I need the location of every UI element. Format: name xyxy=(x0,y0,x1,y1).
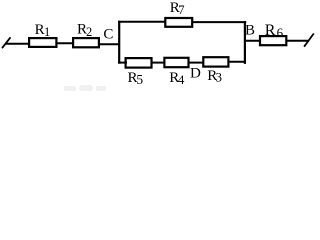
wire: top branch left segment xyxy=(118,21,166,23)
wire: R2 to node C junction xyxy=(98,43,120,45)
resistor R2 xyxy=(73,38,99,47)
wire: right vertical of parallel section xyxy=(244,21,246,64)
wire: bottom branch left segment xyxy=(118,62,127,64)
resistor R5 xyxy=(126,58,152,68)
svg-text:3: 3 xyxy=(216,70,223,85)
wire: R3 to node B junction xyxy=(228,61,247,63)
resistor R3 xyxy=(203,57,228,66)
resistor R6 xyxy=(260,36,286,45)
svg-text:R: R xyxy=(265,22,276,39)
svg-text:5: 5 xyxy=(136,72,143,87)
svg-text:6: 6 xyxy=(277,25,284,40)
resistor R7 xyxy=(165,18,192,27)
watermark xyxy=(64,85,106,91)
resistor R4 xyxy=(164,58,188,67)
wire: R6 to right terminal xyxy=(286,40,310,42)
resistor R1 xyxy=(29,38,56,47)
svg-text:B: B xyxy=(245,22,255,38)
left terminal slash xyxy=(2,37,11,48)
wire: node B to R6 xyxy=(244,40,261,42)
svg-text:C: C xyxy=(103,27,113,43)
svg-text:2: 2 xyxy=(86,25,92,39)
svg-text:7: 7 xyxy=(178,3,184,17)
svg-text:D: D xyxy=(190,66,201,82)
svg-text:4: 4 xyxy=(178,72,185,87)
wire: top branch right segment xyxy=(192,21,247,23)
wire: R4 to R3 (node D) xyxy=(188,62,204,64)
right terminal slash xyxy=(304,34,314,47)
wire: R5 to R4 xyxy=(151,62,165,64)
wire: R1 to R2 xyxy=(56,42,74,44)
svg-text:1: 1 xyxy=(44,25,50,39)
wire: left vertical of parallel section xyxy=(118,21,120,64)
wire: left terminal to R1 xyxy=(6,43,29,45)
